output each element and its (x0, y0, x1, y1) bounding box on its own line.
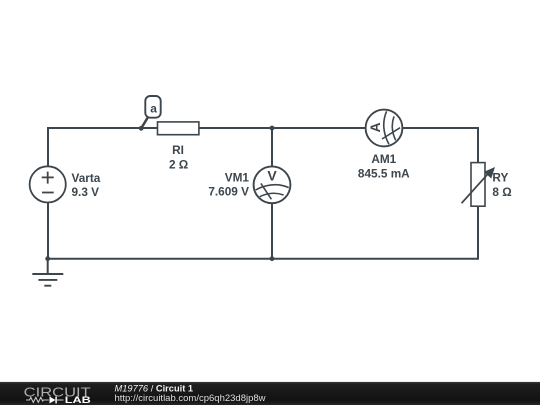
wire VM1 bottom branch (271, 203, 273, 259)
svg-text:7.609 V: 7.609 V (208, 184, 249, 198)
wire ammeter right to top-right corner (402, 127, 479, 129)
wire top-left horizontal (V1 top to resistor) (47, 127, 158, 129)
wire left vertical bottom (V1 to bottom wire) (47, 202, 49, 258)
wire right vertical top (corner to RY) (477, 127, 479, 163)
CircuitLab logo (24, 385, 91, 405)
svg-text:V: V (267, 168, 277, 184)
svg-text:845.5 mA: 845.5 mA (358, 166, 410, 180)
node junction top VM1 (270, 126, 275, 131)
voltmeter VM1 (254, 166, 291, 203)
svg-text:RY: RY (492, 170, 508, 184)
svg-text:8 Ω: 8 Ω (492, 185, 511, 199)
wire resistor right to ammeter left (199, 127, 366, 129)
svg-text:9.3 V: 9.3 V (72, 185, 100, 199)
wire right vertical bottom (RY to bottom wire) (477, 206, 479, 260)
svg-text:http://circuitlab.com/cp6qh23d: http://circuitlab.com/cp6qh23d8jp8w (115, 393, 266, 404)
node junction ground (45, 256, 50, 261)
wire VM1 top branch (271, 128, 273, 167)
svg-text:RI: RI (172, 143, 184, 157)
wire ground stub (47, 259, 49, 274)
svg-text:LAB: LAB (65, 395, 91, 405)
rheostat RY (462, 163, 495, 207)
svg-text:a: a (150, 102, 157, 116)
ground (32, 274, 63, 286)
node probe tap (139, 126, 144, 131)
resistor RI (158, 122, 199, 135)
wire bottom horizontal (48, 258, 478, 260)
wire left vertical top (top wire to V1) (47, 127, 49, 167)
ammeter AM1 (366, 110, 403, 147)
voltage source V1 (Varta) (30, 166, 66, 202)
svg-text:A: A (367, 122, 383, 132)
node junction bottom VM1 (270, 256, 275, 261)
svg-text:Varta: Varta (72, 171, 101, 185)
probe a flag (141, 96, 161, 128)
svg-text:2 Ω: 2 Ω (169, 157, 188, 171)
svg-text:AM1: AM1 (371, 152, 396, 166)
svg-text:VM1: VM1 (225, 170, 250, 184)
